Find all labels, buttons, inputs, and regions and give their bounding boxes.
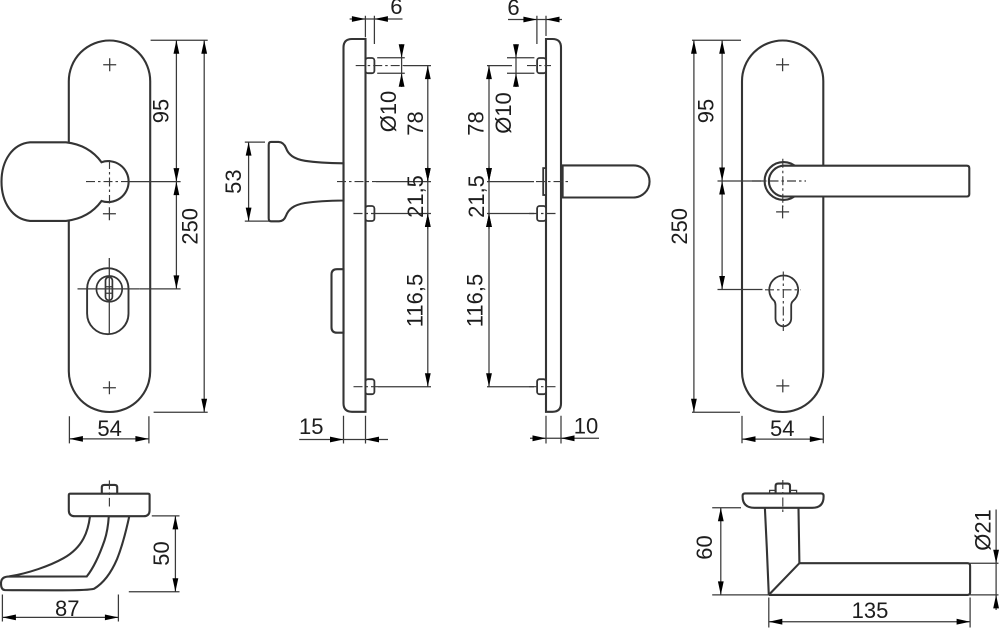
screw cross top	[103, 58, 116, 71]
dimension 21,5 line	[488, 167, 490, 230]
knob horizontal centerline	[86, 181, 128, 183]
dimension 95 line	[175, 40, 177, 181]
svg-text:116,5: 116,5	[402, 274, 427, 327]
dimension 53 line	[248, 142, 250, 221]
extension line plate bottom	[154, 411, 208, 413]
PZ hole centerlines	[765, 272, 801, 332]
knob vertical centerline	[109, 160, 111, 204]
cylinder centerlines	[78, 258, 140, 335]
svg-text:15: 15	[299, 414, 323, 439]
dimension D10 line	[401, 44, 403, 87]
svg-text:50: 50	[149, 541, 174, 565]
dimension 116,5 line	[427, 214, 429, 387]
svg-text:54: 54	[770, 416, 794, 441]
dimension 87 extension lines	[2, 595, 118, 622]
dimension 21,5 line	[427, 167, 429, 230]
door knob (front view)	[2, 142, 129, 221]
centerline top boss	[527, 65, 551, 67]
svg-text:135: 135	[852, 598, 889, 623]
backplate (front, right view)	[742, 41, 823, 413]
extension middle boss centre	[487, 213, 534, 215]
dimension 250 line	[203, 40, 205, 412]
svg-text:10: 10	[574, 414, 598, 439]
rose horizontal centerline	[752, 180, 806, 182]
lever bend miter line	[769, 563, 800, 595]
cylinder circle	[96, 276, 122, 302]
keyway ticks	[106, 287, 113, 293]
dimension 53 extension lines	[245, 142, 269, 221]
svg-text:6: 6	[507, 0, 519, 20]
spindle centerline	[108, 480, 110, 506]
dimension 54 extension lines	[69, 416, 148, 443]
svg-text:95: 95	[149, 99, 174, 123]
plate side profile (knob side)	[344, 39, 366, 412]
dimension 6 extension lines	[365, 16, 374, 44]
fixing boss top	[537, 58, 546, 73]
svg-text:6: 6	[390, 0, 402, 19]
svg-text:250: 250	[667, 208, 692, 245]
dimension 116,5 line	[488, 214, 490, 387]
knob body profile	[1, 516, 129, 590]
fixing boss middle	[366, 206, 375, 221]
fixing boss bottom	[537, 379, 546, 394]
extension bottom boss centre	[487, 386, 534, 388]
knob inner curve (left)	[9, 516, 90, 576]
dimension 60 extension lines	[712, 508, 769, 595]
screw cross below knob	[103, 207, 116, 220]
extension line plate top	[151, 39, 208, 41]
extension line knob centre to dimension lines	[128, 181, 181, 183]
fixing boss middle	[537, 206, 546, 221]
dimension 6 line	[508, 19, 562, 21]
lever rose circle	[765, 162, 803, 200]
svg-text:54: 54	[97, 416, 121, 441]
dimension 135 extension lines	[769, 598, 970, 628]
knob flange	[69, 494, 150, 517]
extension middle boss centre	[378, 213, 431, 215]
extension line cylinder centre	[718, 289, 763, 291]
centerline middle boss	[354, 213, 379, 215]
extension top boss centre	[487, 65, 512, 67]
fixing boss bottom	[366, 379, 375, 394]
PZ cylinder hole	[769, 275, 798, 326]
dimension D10 extension lines	[377, 58, 405, 73]
dimension 54 line	[69, 438, 148, 440]
extension spindle centre	[376, 181, 431, 183]
bearing flange behind plate	[543, 168, 546, 195]
centerline middle boss	[529, 213, 556, 215]
dimension 10 extension lines	[546, 416, 561, 444]
security escutcheon oval	[87, 268, 128, 334]
dimension 10 line	[530, 437, 599, 439]
svg-text:Ø21: Ø21	[970, 509, 995, 551]
extension spindle centre	[487, 181, 534, 183]
lever neck left edge	[765, 508, 769, 595]
plate side profile (lever side)	[546, 39, 561, 412]
extension top boss centre	[404, 65, 431, 67]
svg-text:53: 53	[221, 169, 246, 193]
knob side profile (trumpet)	[269, 142, 344, 221]
screw cross bottom	[103, 381, 116, 394]
dimension 54 line	[742, 438, 823, 440]
cylinder cover side view	[332, 269, 344, 333]
dimension 87 line	[2, 616, 118, 618]
dimension 78 line	[427, 66, 429, 182]
svg-text:60: 60	[692, 535, 717, 559]
dimension 95 line	[721, 40, 723, 181]
dimension D10 line	[515, 44, 517, 87]
svg-text:Ø10: Ø10	[491, 92, 516, 134]
rose vertical centerline	[782, 159, 784, 207]
screw cross top	[776, 58, 789, 71]
dimension D21 line	[995, 510, 997, 611]
lever bar with rounded neck end	[769, 166, 969, 197]
centerline top boss	[356, 65, 404, 67]
svg-text:Ø10: Ø10	[376, 91, 401, 133]
svg-text:78: 78	[403, 111, 428, 135]
dimension 6 line	[350, 18, 403, 20]
dimension 6 extension lines	[537, 16, 546, 44]
svg-text:116,5: 116,5	[463, 274, 488, 327]
extension line plate bottom	[692, 411, 740, 413]
svg-text:250: 250	[178, 208, 203, 245]
spindle centerline	[536, 181, 570, 183]
dimension lever-to-cylinder line (unlabeled)	[721, 181, 723, 290]
svg-text:87: 87	[55, 596, 79, 621]
screw cross below rose	[776, 205, 789, 218]
dimension 15 extension lines	[344, 416, 366, 444]
lever neck right edge	[797, 508, 800, 563]
cylinder keyway slot	[106, 277, 113, 300]
dimension 54 extension lines	[742, 416, 823, 443]
svg-text:78: 78	[463, 111, 488, 135]
dimension D21 extension lines	[970, 563, 998, 595]
dimension 60 line	[720, 508, 722, 595]
extension line lever centre	[718, 180, 764, 182]
centerline bottom boss	[354, 386, 379, 388]
dimension 15 line	[299, 439, 388, 441]
screw cross bottom	[776, 379, 789, 392]
svg-text:21,5: 21,5	[403, 175, 428, 218]
dimension 78 line	[488, 66, 490, 182]
rose top view	[743, 493, 824, 507]
dimension 135 line	[769, 621, 970, 623]
extension bottom boss centre	[378, 386, 431, 388]
lever handle side view	[563, 165, 650, 197]
dimension 50 line	[174, 516, 176, 592]
spindle square	[776, 484, 790, 494]
extension line cylinder centre	[140, 288, 181, 290]
centerline bottom boss	[529, 386, 556, 388]
svg-text:21,5: 21,5	[464, 175, 489, 218]
spindle centerline	[782, 480, 784, 514]
backplate (front, left view)	[69, 41, 150, 413]
dimension 50 extension lines	[129, 516, 180, 592]
lever bar top view	[769, 563, 970, 595]
fixing boss top	[366, 58, 375, 73]
dimension 250 line	[693, 40, 695, 412]
svg-text:95: 95	[694, 99, 719, 123]
dimension knob-to-cylinder line (unlabeled)	[175, 182, 177, 289]
knob/spindle centerline	[337, 181, 376, 183]
spindle collar tabs	[770, 490, 797, 493]
spindle stub	[102, 485, 117, 494]
extension line plate top	[692, 39, 741, 41]
dimension D10 extension lines	[507, 58, 534, 73]
